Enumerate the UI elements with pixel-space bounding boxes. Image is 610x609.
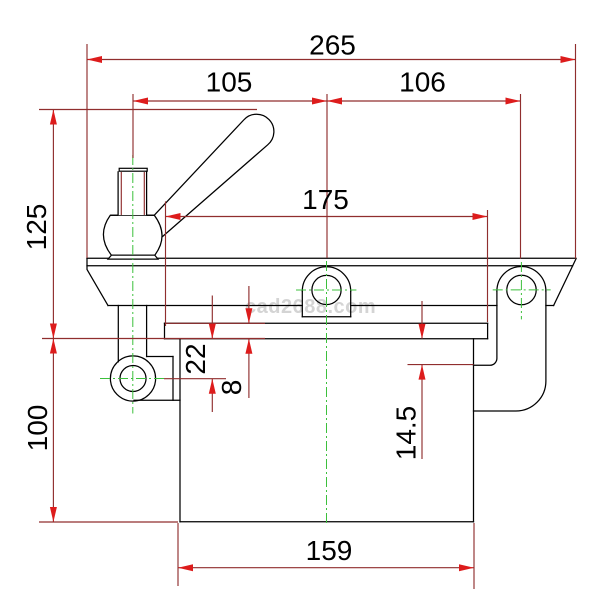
center lug right side bbox=[350, 291, 352, 317]
arrowhead 8 bottom bbox=[245, 339, 252, 354]
svg-text:265: 265 bbox=[309, 30, 356, 61]
roller block top edge bbox=[147, 356, 173, 358]
stud thread lines (red) bbox=[121, 172, 144, 215]
arrowhead 125 bottom bbox=[50, 324, 57, 339]
dim line 265 bbox=[87, 59, 576, 61]
centerline right lug horizontal bbox=[493, 289, 551, 291]
red dimension and extension lines bbox=[39, 44, 576, 589]
arrowhead 14.5 top bbox=[419, 324, 426, 339]
green centerlines bbox=[100, 155, 551, 526]
ext line 105 left x133 bbox=[132, 94, 134, 158]
centerline center lug vertical bbox=[326, 261, 328, 526]
ext line 175 left x165.5 bbox=[165, 201, 167, 326]
body flange bottom line L2 bbox=[165, 338, 488, 340]
arrow tail 22 upper bbox=[211, 296, 213, 339]
right link hole bbox=[507, 275, 536, 304]
roller wheel inner circle bbox=[120, 366, 146, 392]
arrow tail 8 upper bbox=[248, 286, 250, 323]
svg-text:cad2688.com: cad2688.com bbox=[245, 296, 376, 318]
washer base under ball bbox=[108, 255, 158, 259]
top plate bottom edge right segment bbox=[546, 305, 554, 307]
ext line 159 left x178 bbox=[177, 523, 179, 586]
centerline right lug vertical bbox=[520, 262, 522, 319]
threaded stud body fill bbox=[118, 171, 147, 215]
top plate bottom edge left segment bbox=[108, 305, 302, 307]
ball knob body bbox=[103, 215, 162, 255]
arrowhead 175 right bbox=[473, 213, 488, 220]
arrowhead 125 top bbox=[50, 110, 57, 125]
top plate right chamfer bbox=[554, 259, 576, 306]
ext line 105/106 mid x327 bbox=[326, 94, 328, 258]
red arrowheads bbox=[50, 56, 576, 571]
arrowhead 22 bottom bbox=[209, 379, 216, 394]
right link dome bbox=[497, 266, 546, 291]
ext line L2 overlay bbox=[42, 338, 265, 340]
center lug left side bbox=[301, 291, 303, 317]
ext line top datum y109.5 bbox=[39, 109, 257, 111]
center lug hole bbox=[312, 275, 341, 304]
right link right edge and bottom bbox=[474, 291, 546, 411]
dim line 159 bbox=[178, 567, 474, 569]
piston rod right side bbox=[146, 306, 148, 357]
center lug dome arc bbox=[302, 267, 350, 291]
svg-text:175: 175 bbox=[302, 184, 349, 215]
body left edge bbox=[179, 339, 181, 522]
centerline roller horizontal bbox=[100, 378, 164, 380]
body flange top line L1 bbox=[165, 322, 488, 324]
handle lever bbox=[154, 114, 274, 237]
dim line 175 bbox=[166, 216, 488, 218]
arrowhead 22 top bbox=[209, 324, 216, 339]
center lug bottom edge bbox=[302, 316, 350, 318]
threaded stud sides bbox=[118, 171, 147, 215]
arrow tail 8 lower bbox=[248, 339, 250, 398]
arrow tail 22 lower bbox=[211, 379, 213, 412]
arrowhead 105 right bbox=[312, 98, 327, 105]
arrowhead 105 left bbox=[133, 98, 148, 105]
arrowhead 159 right bbox=[459, 564, 474, 571]
ext line 175 right x487.5 bbox=[487, 210, 489, 322]
ext line hook step y364.6 bbox=[408, 364, 474, 366]
ext line 106 right x520.5 bbox=[520, 94, 522, 259]
top plate second edge line bbox=[87, 265, 573, 267]
centerline center lug horizontal bbox=[296, 289, 356, 291]
svg-text:159: 159 bbox=[306, 535, 353, 566]
top plate bottom edge middle segment bbox=[351, 305, 497, 307]
right link left edge and inner fillet bbox=[474, 291, 497, 365]
svg-text:8: 8 bbox=[216, 380, 247, 396]
piston rod left side bbox=[117, 306, 119, 362]
svg-text:22: 22 bbox=[180, 343, 211, 374]
svg-text:105: 105 bbox=[206, 67, 253, 98]
arrowhead 265 left bbox=[87, 56, 102, 63]
dim line 105/106 bbox=[133, 100, 521, 102]
arrowhead 106 right bbox=[506, 98, 521, 105]
ext line 159 right x474 bbox=[473, 523, 475, 589]
svg-text:125: 125 bbox=[21, 204, 52, 251]
svg-text:14.5: 14.5 bbox=[391, 406, 422, 461]
arrow tail 14.5 lower bbox=[421, 365, 423, 459]
arrowhead 175 left bbox=[166, 213, 181, 220]
dimension texts bbox=[21, 30, 446, 567]
arrowhead 100 bottom bbox=[50, 507, 57, 522]
ext line 265 right x575.5 bbox=[575, 44, 577, 259]
arrowhead 14.5 bottom bbox=[419, 365, 426, 380]
top plate top edge line bbox=[87, 257, 576, 259]
roller block bottom edge bbox=[134, 399, 180, 401]
body bottom edge bbox=[180, 521, 474, 523]
arrowhead 265 right bbox=[561, 56, 576, 63]
arrowhead 106 left bbox=[327, 98, 342, 105]
roller block right edge bbox=[172, 357, 174, 401]
arrowhead 100 top bbox=[50, 339, 57, 354]
top plate left edge and chamfer bbox=[87, 258, 108, 305]
arrowhead 8 top bbox=[245, 308, 252, 323]
arrowhead 159 left bbox=[178, 564, 193, 571]
ext line roller center y378.7 bbox=[164, 378, 226, 380]
svg-text:106: 106 bbox=[399, 67, 446, 98]
dim line 125/100 vertical bbox=[52, 110, 54, 523]
arrow tail 14.5 upper bbox=[421, 301, 423, 339]
ext line 265 left x87 bbox=[86, 44, 88, 258]
ext line body bottom y522 bbox=[39, 521, 178, 523]
ball knob top edge bbox=[110, 214, 154, 216]
threaded stud top cap bbox=[119, 168, 147, 171]
body flange right edge bbox=[487, 323, 489, 338]
ext line L1 overlay bbox=[166, 322, 265, 324]
svg-text:100: 100 bbox=[22, 405, 53, 452]
roller wheel outer circle bbox=[110, 356, 155, 401]
body right edge bbox=[473, 339, 475, 522]
body flange left edge bbox=[164, 323, 166, 338]
centerline stud/ball/roller vertical bbox=[132, 155, 134, 414]
